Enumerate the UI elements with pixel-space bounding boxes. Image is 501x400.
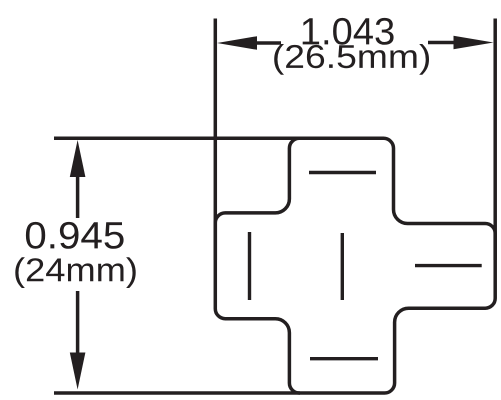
dimension shaft left-lower bbox=[76, 291, 80, 353]
dimension text 1.043 bbox=[303, 18, 394, 45]
extension line top (horizontal, left of cutout) bbox=[54, 137, 300, 141]
dimension shaft top-right bbox=[428, 41, 455, 45]
right slot bbox=[415, 264, 482, 267]
arrowhead right (top dimension) bbox=[454, 36, 494, 50]
left slot bbox=[248, 232, 251, 300]
extension line right (vertical, above cutout) bbox=[493, 19, 497, 261]
top slot bbox=[309, 171, 376, 174]
dimension text 0.945 bbox=[26, 222, 124, 249]
arrowhead up (left dimension) bbox=[70, 140, 86, 177]
dimension shaft left-upper bbox=[76, 176, 80, 218]
dimension text (24mm) bbox=[15, 257, 135, 288]
bottom slot bbox=[310, 357, 378, 360]
center slot bbox=[341, 233, 344, 300]
dimension text (26.5mm) bbox=[274, 44, 429, 75]
arrowhead left (top dimension) bbox=[217, 36, 257, 50]
extension line left (vertical, above cutout) bbox=[214, 19, 218, 261]
arrowhead down (left dimension) bbox=[70, 353, 86, 390]
dimension shaft top-left bbox=[255, 41, 281, 45]
cutout outline bbox=[215, 138, 495, 393]
extension line bottom (horizontal, left of cutout) bbox=[54, 391, 300, 395]
